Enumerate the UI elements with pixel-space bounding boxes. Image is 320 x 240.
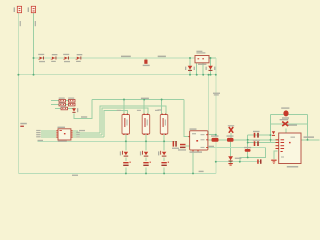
label Q3 xyxy=(158,151,159,155)
junction gnd net x215.8 xyxy=(215,161,217,163)
resistor R5 xyxy=(61,107,68,110)
diode D4 xyxy=(76,57,82,60)
label L1 xyxy=(281,107,289,118)
junction bus U2 xyxy=(192,172,194,174)
varistor RV1 xyxy=(144,60,147,64)
net label bundle mid xyxy=(158,109,162,110)
wire drop to K2 right pin xyxy=(143,100,145,115)
wire B1 left lead 2 xyxy=(41,132,57,134)
capacitor C4 at rail end xyxy=(173,141,177,147)
wire bottom ground bus xyxy=(18,172,215,174)
net label feedback xyxy=(208,146,214,147)
wire branch diode D6 xyxy=(210,58,212,75)
resistor R1 xyxy=(59,100,66,103)
wire B1 right pin1 stub xyxy=(72,130,79,132)
net label +5V output xyxy=(304,136,315,138)
wire K3 lower chain xyxy=(163,134,165,151)
label C6 xyxy=(253,131,260,132)
wire resistor cluster lead row2 xyxy=(51,104,59,106)
B1 inner marks xyxy=(60,130,66,134)
label U2 below xyxy=(190,151,203,152)
wire U4 ground elbow xyxy=(274,151,278,159)
wire feedback net y147.5 xyxy=(208,147,266,149)
resistor R3 xyxy=(59,103,66,106)
label C4 xyxy=(172,148,179,149)
net label AC wire a xyxy=(121,56,131,58)
diode D3 xyxy=(63,57,69,60)
wire T1 pin1 drop xyxy=(196,63,198,75)
wire branch diode D5 xyxy=(189,58,191,75)
capacitor C5 top xyxy=(228,125,234,133)
diode D7 vertical xyxy=(72,108,76,113)
wire B1 right to bundle 2 xyxy=(72,134,102,136)
transistor Q2 xyxy=(142,151,148,157)
label T1 xyxy=(196,51,206,65)
wire LED1 to bus xyxy=(125,168,127,174)
resistor R7 bead xyxy=(227,138,234,142)
wire B1 right to bundle 3 xyxy=(72,136,105,138)
junction x208.5 bus xyxy=(208,74,210,76)
regulator U4 xyxy=(279,133,301,164)
resistor R6 bead xyxy=(212,138,219,142)
T1 inner pins xyxy=(198,58,205,59)
net label rail left end xyxy=(38,140,44,141)
B1 left net labels xyxy=(36,130,40,138)
junction x247.7 pin2net xyxy=(247,142,249,144)
wire U2 bottom pin to bus xyxy=(192,150,194,173)
wire Q3 to LED3 xyxy=(163,158,165,162)
label R6 xyxy=(211,135,219,136)
wire link R3-R4 xyxy=(66,104,69,106)
net label route W1 xyxy=(81,116,87,117)
ground under D8 xyxy=(228,163,232,166)
label D7 xyxy=(77,108,78,112)
wire vertical x270.5 xyxy=(270,114,272,142)
wire LED2 to bus xyxy=(145,168,147,174)
net label on v2 xyxy=(35,21,36,26)
wire common rail y141.3 xyxy=(38,140,177,142)
label D3 xyxy=(63,54,70,62)
diode D8 xyxy=(228,156,233,161)
junction rail K1 xyxy=(125,140,127,142)
label D4 xyxy=(76,54,82,62)
label K2 xyxy=(137,110,141,111)
diode D6 xyxy=(208,66,213,71)
capacitor C6 xyxy=(254,133,259,138)
junction D8 top xyxy=(230,139,232,141)
pin header JP2 pins xyxy=(33,8,35,11)
junction x270.5 pinB xyxy=(270,139,272,141)
label B1 below xyxy=(58,141,67,142)
junction T1 pin1 xyxy=(196,74,198,76)
label R3 xyxy=(59,102,64,105)
wire rail drop to U2 input xyxy=(184,100,190,137)
junction x270.5 cap net xyxy=(270,134,272,136)
junction x247.7 elbow xyxy=(247,156,249,158)
resistor R8 xyxy=(245,149,251,152)
wire JP1 vertical net down left side xyxy=(17,13,19,173)
wire B1 right to bundle 1 xyxy=(72,132,100,134)
pin header JP1 pins xyxy=(19,8,21,11)
label D1 xyxy=(38,54,45,62)
relay K3 xyxy=(160,115,168,135)
B1 left pin stubs xyxy=(56,130,58,137)
wire T1 right stub to vertical drop xyxy=(209,57,216,59)
diode D9 xyxy=(282,122,288,126)
wire catch diode rail xyxy=(271,123,308,125)
optocoupler U2 xyxy=(190,131,208,150)
diode D2 xyxy=(51,57,57,60)
junction v2/return xyxy=(33,74,35,76)
net label AC wire b xyxy=(158,56,166,58)
K2 pin stubs xyxy=(144,114,149,135)
diode D1 xyxy=(38,57,44,60)
junction v1/return xyxy=(17,74,19,76)
net label top rail xyxy=(141,98,149,99)
wire drop to K3 right pin xyxy=(161,100,163,115)
pin header JP2 xyxy=(31,6,35,12)
capacitor CE2 xyxy=(143,162,151,166)
label D5 xyxy=(185,67,195,70)
label D9 xyxy=(280,119,289,120)
wire U4 output right xyxy=(301,139,320,141)
wire ground net y161.7 xyxy=(216,161,261,163)
wire U2 pinA to drops xyxy=(208,134,216,136)
wire link R5 to D7 xyxy=(68,108,75,109)
label JP2 xyxy=(28,7,29,12)
capacitor CE3 xyxy=(161,162,169,166)
net label bus xyxy=(72,175,78,176)
transformer T1 xyxy=(195,56,209,63)
wire U4 top pin stub xyxy=(285,129,287,134)
junction D5 bottom xyxy=(189,74,191,76)
inductor L1 xyxy=(283,110,288,116)
wire LED3 to bus xyxy=(163,168,165,174)
diode D5 xyxy=(188,66,193,71)
wire link R1-R2 xyxy=(66,100,69,102)
wire JP2 vertical down xyxy=(33,13,35,75)
wire vertical x247.7 xyxy=(247,135,249,157)
junction rail K2 xyxy=(145,140,147,142)
K3 pin stubs xyxy=(162,114,167,135)
label D6 xyxy=(206,67,216,70)
net label bus right xyxy=(199,171,204,172)
wire elbow x265.5 xyxy=(240,148,266,162)
label B1 above xyxy=(58,127,66,128)
U2 inner marks xyxy=(192,133,205,148)
wire AC diode-row net y58 xyxy=(34,57,196,59)
B1 bundle labels xyxy=(76,132,79,138)
wire B1 left lead 4 xyxy=(41,136,57,138)
wire AC return net y74.7 xyxy=(18,74,215,76)
net label on v1 xyxy=(20,21,21,26)
wire to U4 pin2 y142.5 xyxy=(248,142,279,144)
label Q2 xyxy=(140,151,141,155)
label U2 above xyxy=(190,128,197,129)
U4 inner pin names xyxy=(281,139,285,152)
junction x247.7 pinB xyxy=(247,139,249,141)
wire B1 left lead 3 xyxy=(41,134,57,136)
capacitor CE1 xyxy=(123,162,131,166)
junction v2/AC xyxy=(33,57,35,59)
wire Q2 to LED2 xyxy=(145,158,147,162)
wire Q1 to LED1 xyxy=(125,158,127,162)
wire K2 lower chain xyxy=(145,134,147,151)
net label drop x215.8 xyxy=(213,93,220,96)
junction D6 top xyxy=(210,57,212,59)
wire cap C5 lead xyxy=(230,133,232,140)
B1 right pin stubs xyxy=(71,130,73,137)
U4 inner marks xyxy=(281,137,295,158)
junction x215.8 bus xyxy=(215,74,217,76)
label R8 xyxy=(244,147,251,148)
U4 left pin stubs xyxy=(276,139,280,149)
label K1 xyxy=(117,110,121,111)
wire inductor loop top xyxy=(271,113,308,115)
U2 pin stubs xyxy=(189,134,208,151)
wire B1 left lead 1 xyxy=(41,130,57,132)
junction K2 drop xyxy=(143,99,145,101)
junction D6 bottom xyxy=(210,74,212,76)
wire vertical x208.5 from return bus xyxy=(208,75,210,135)
label U4 below xyxy=(287,166,298,168)
wire U2 pinB output net xyxy=(208,139,280,141)
label R2 xyxy=(68,98,74,99)
relay K2 xyxy=(142,115,150,135)
junction bus K3 xyxy=(163,172,165,174)
resistor R2 xyxy=(69,100,76,103)
junction K1 drop xyxy=(123,99,125,101)
label C8 xyxy=(178,149,186,150)
relay K1 xyxy=(122,115,130,135)
wire lead row3 xyxy=(55,108,61,110)
supply marker VCC xyxy=(272,131,275,136)
label D2 xyxy=(51,54,57,62)
capacitor C7 xyxy=(254,141,259,146)
junction bus K2 xyxy=(145,172,147,174)
junction rail K3 xyxy=(163,140,165,142)
B1 right pin1 net label xyxy=(79,130,85,131)
wire long vertical drop x215.8 xyxy=(215,58,217,173)
junction pinA end xyxy=(215,134,217,136)
junction output x307.5 xyxy=(307,139,309,141)
label RV1 xyxy=(143,65,150,66)
label R5 xyxy=(61,105,66,108)
wire T1 pin2 drop xyxy=(202,63,204,75)
wire bundle from B1 pin to K1 left pin xyxy=(104,110,127,137)
net label v1 mid xyxy=(20,123,27,127)
junction D8 bottom xyxy=(230,161,232,163)
wire bundle from B1 pin to K3 left pin xyxy=(100,106,166,133)
wire diode D8 branch xyxy=(230,140,232,162)
transistor Q1 xyxy=(122,151,128,157)
wire resistor cluster lead row1 xyxy=(51,100,59,102)
label K3 xyxy=(155,110,159,111)
wire varistor stub xyxy=(145,58,147,60)
junction K3 drop xyxy=(161,99,163,101)
wire K1 lower chain xyxy=(125,134,127,151)
wire top distribution rail y99.5 xyxy=(92,99,184,101)
K1 pin stubs xyxy=(123,114,128,135)
bridge rectifier B1 xyxy=(58,129,71,140)
label C7 xyxy=(253,140,260,141)
wire U2 left lower stub xyxy=(186,145,191,147)
pin header JP1 xyxy=(17,6,21,12)
wire D7 bottom route up to top rail xyxy=(74,100,92,119)
wire vertical x307.5 xyxy=(307,114,309,139)
junction gnd net mid xyxy=(239,161,241,163)
junction bus K1 xyxy=(125,172,127,174)
label R1 xyxy=(59,98,65,99)
wire bundle from B1 pin to K2 left pin xyxy=(102,108,148,135)
label U4 top xyxy=(288,124,297,125)
wire drop to K1 right pin xyxy=(123,100,125,115)
junction D5 top xyxy=(189,57,191,59)
label D8 xyxy=(235,158,242,159)
wire cap C6 branch y135.1 xyxy=(248,134,271,136)
resistor R4 xyxy=(69,103,76,106)
capacitor C9 right end xyxy=(257,159,261,163)
transistor Q3 xyxy=(160,151,166,157)
junction T1 pin2 xyxy=(202,74,204,76)
label JP1 xyxy=(14,7,15,12)
label Q1 xyxy=(120,151,121,155)
ground U4 xyxy=(271,160,276,164)
label R7 xyxy=(227,135,234,136)
capacitor C8 at U2 left xyxy=(180,144,186,148)
